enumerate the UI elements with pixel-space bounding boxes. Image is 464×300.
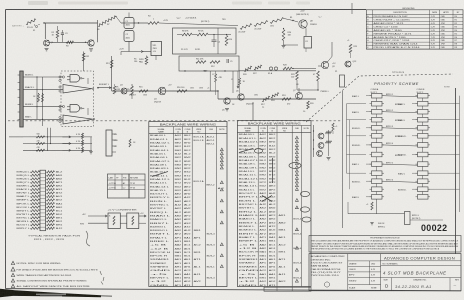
wire chain to Q8 <box>284 19 293 21</box>
input network G2 <box>59 86 61 88</box>
wire left column <box>111 56 113 91</box>
revisions header rule <box>366 13 463 15</box>
regulator VR1 <box>151 42 162 56</box>
voltage table right <box>129 174 145 198</box>
ground at Q2 <box>89 48 93 50</box>
priority bottom wires <box>376 199 378 214</box>
resistor R3 <box>67 41 74 44</box>
resistor R35 <box>215 74 217 82</box>
sheet center dashed line <box>8 120 342 122</box>
wire dropper 2 <box>232 71 234 93</box>
priority box B9 <box>418 162 429 167</box>
transistor Q11 <box>318 143 324 149</box>
priority +5 pullup <box>371 202 373 210</box>
resistor R34 <box>129 139 131 147</box>
pen oval 3 <box>300 191 309 196</box>
ground strip <box>328 130 330 156</box>
title block divider address <box>347 254 349 291</box>
buffer wedge G2 <box>63 85 92 94</box>
wire battery to node A <box>43 22 44 23</box>
priority box B1 <box>418 93 429 98</box>
transistor Q5 <box>224 98 230 104</box>
resistor R27 diagonal <box>254 65 262 70</box>
priority box A7 <box>372 143 383 148</box>
capacitor C3 <box>61 32 64 34</box>
wire caps to regulator feed <box>128 42 130 52</box>
proprietary notice box <box>309 236 461 253</box>
vertical wire gates feed <box>36 77 38 119</box>
priority box A3 <box>372 109 383 114</box>
input network G1 <box>59 76 61 78</box>
wire termination strip <box>313 125 315 157</box>
transistor Q10 <box>318 133 324 139</box>
pen oval 2 <box>254 149 262 154</box>
wire +12V rail <box>159 23 238 26</box>
termination resistor rows <box>9 136 23 138</box>
wire bus to gate 4 <box>23 118 63 120</box>
note 1 marker <box>11 261 14 264</box>
sub-circuit box A <box>173 28 237 54</box>
resistor R23 diagonal chain <box>270 18 284 24</box>
note 2 marker <box>11 267 15 271</box>
scan smudge top left <box>28 1 48 5</box>
left arrow entry row A <box>237 71 239 84</box>
gate box dashed outline <box>61 71 94 127</box>
wire bus to gate 2 <box>23 89 63 91</box>
capacitor C4 <box>212 39 217 41</box>
wire caps to +12V node <box>138 22 139 23</box>
resistor R4 <box>148 22 159 25</box>
nand gate G1 <box>70 75 80 83</box>
pen scribble near converter <box>86 231 90 246</box>
resistor R6 diagonal <box>98 20 107 26</box>
connector J4 <box>106 130 112 156</box>
priority box B4 <box>418 117 429 122</box>
schematic no rule <box>381 260 461 262</box>
resistor R15 <box>139 90 148 93</box>
junction dots box B <box>184 70 185 71</box>
resistor R20 <box>307 101 310 109</box>
priority box A6 <box>372 134 383 139</box>
transistor Q2 <box>85 42 86 43</box>
priority box B5 <box>418 126 429 131</box>
revisions rows <box>366 17 463 19</box>
priority cross wires <box>382 96 418 97</box>
wire to table area <box>252 103 254 121</box>
resistor R16 <box>177 90 187 93</box>
priority box A1 <box>372 93 383 98</box>
link arrow row 2 <box>62 143 70 145</box>
priority bottom box <box>405 212 411 225</box>
priority box B8 <box>418 152 429 157</box>
corner black wedge <box>0 289 101 297</box>
resistor RN1 row <box>23 136 92 138</box>
regulator box VR2 <box>108 213 120 229</box>
capacitor C1 electrolytic <box>124 18 134 29</box>
resistor R22 diagonal chain <box>254 21 268 27</box>
priority box A11 <box>372 179 383 184</box>
arrow into VR2 <box>88 215 107 217</box>
resistor R8 <box>182 33 192 36</box>
dashed wire to priority scheme <box>306 74 453 122</box>
node A vertical drop <box>44 23 46 39</box>
priority box A13 <box>372 195 383 200</box>
priority box B12 <box>418 187 429 192</box>
priority box A10 <box>372 171 383 176</box>
transistor Q3 <box>121 88 127 94</box>
table: backplane wiring 1 outline <box>149 122 227 287</box>
capacitor C5 <box>226 59 228 63</box>
resistor R19 <box>282 98 291 101</box>
resistor R14 <box>131 86 134 95</box>
resistor R5 <box>145 57 148 65</box>
pen oval 4 <box>300 207 309 212</box>
transistor Q8 power <box>299 20 307 28</box>
resistor pack RP1 <box>40 170 46 231</box>
wire lower battery row <box>48 41 89 43</box>
wire row B <box>112 90 218 92</box>
resistor R29 <box>296 71 299 80</box>
priority box A12 <box>372 187 383 192</box>
link arrow row 1 <box>62 136 70 138</box>
transistor Q7 <box>296 93 303 100</box>
input network G3 <box>59 105 61 107</box>
note 5 marker <box>11 284 14 287</box>
priority box B3 <box>418 109 429 114</box>
wire dropper 1 <box>209 71 211 91</box>
resistor R17 diagonal <box>262 96 270 101</box>
wire row B step <box>217 91 219 99</box>
wire row A <box>180 70 316 72</box>
resistor RN2 row <box>23 143 92 145</box>
resistor RV1 vertical stack <box>82 133 84 139</box>
wire bus to gate 3 <box>23 106 63 108</box>
resistor R25 <box>349 44 352 53</box>
priority right return bus <box>459 96 461 212</box>
priority box A4 <box>372 117 383 122</box>
wire Q8 emitter down <box>305 28 307 36</box>
fuse F1 <box>35 25 37 27</box>
resistor R9 <box>197 33 208 36</box>
priority box A2 <box>372 101 383 106</box>
resistor R32 <box>82 53 85 61</box>
table: backplane wiring 1 column rules <box>172 127 174 287</box>
link arrow row 3 <box>62 149 70 151</box>
resistor R26 diagonal <box>244 66 252 71</box>
priority box B2 <box>418 101 429 106</box>
arrows out of VR3 <box>139 215 146 217</box>
resistor R2 <box>56 30 59 38</box>
transistor Q12 <box>317 151 323 157</box>
priority box B10 <box>418 171 429 176</box>
nand gate G3 <box>70 105 80 113</box>
wire charger node to caps <box>116 17 121 24</box>
middle cells rules <box>348 260 381 262</box>
wire PWRFL junction <box>317 71 320 81</box>
title block outline <box>309 254 461 291</box>
resistor R11 <box>196 61 206 64</box>
transistor Q13 <box>345 61 351 67</box>
resistor R21 diagonal chain <box>240 24 252 30</box>
resistor RN3 row <box>23 149 92 151</box>
size row dividers <box>391 278 393 291</box>
pen X mark <box>262 196 272 202</box>
resistor R36 <box>239 78 241 85</box>
note 3 marker <box>11 273 14 276</box>
transistor Q6 <box>238 94 244 100</box>
wire block right rail <box>90 137 92 150</box>
drawing border frame <box>6 9 367 11</box>
wires VR2 to VR3 <box>120 215 127 217</box>
capacitor C2 electrolytic <box>124 31 134 42</box>
priority box A5 <box>372 126 383 131</box>
wires in box A <box>177 34 182 36</box>
pen oval 1 <box>289 163 301 169</box>
priority box B7 <box>418 143 429 148</box>
connector bus bar J2 <box>20 71 23 127</box>
wire from top into gate box <box>83 52 85 72</box>
priority box A8 <box>372 152 383 157</box>
priority left return bus <box>346 104 348 174</box>
voltage table left <box>108 174 130 198</box>
sub-circuit box B <box>179 56 239 71</box>
transistor Q9 <box>321 61 328 68</box>
smudge text under wedge <box>36 294 66 296</box>
resistor R12 <box>210 61 220 64</box>
buffer wedge G4 <box>63 115 93 124</box>
table: backplane wiring 2 outline <box>237 121 311 287</box>
connector stub J3 <box>340 75 345 87</box>
ground at Q5 <box>225 108 229 110</box>
priority box B11 <box>418 179 429 184</box>
resistor R13 <box>110 60 113 68</box>
wire into VR2 lower <box>88 222 108 224</box>
wire block verticals from gates <box>47 128 49 151</box>
resistor R24 <box>282 30 285 41</box>
priority box B6 <box>418 134 429 139</box>
pen oval 5 <box>302 217 311 222</box>
priority box B13 <box>418 195 429 200</box>
size row rule <box>381 277 461 279</box>
regulator box VR3 <box>127 213 139 229</box>
wire +12V to regulator VR1 <box>121 51 143 53</box>
priority box A9 <box>372 162 383 167</box>
resistor R7 diagonal <box>107 16 116 22</box>
table 2 continuation strip <box>264 287 311 291</box>
title block divider middle <box>380 254 382 291</box>
junction row B <box>217 90 218 91</box>
ground at Q1 <box>45 48 49 50</box>
note 4 marker <box>11 279 14 282</box>
wire row A right <box>292 68 316 70</box>
component K1 box <box>304 37 312 49</box>
pen mark vertical in table 2 <box>272 158 274 183</box>
resistor R1 <box>26 19 36 25</box>
pen tick marks <box>100 271 104 285</box>
resistor R31 pair <box>38 94 40 102</box>
scan smudge top middle <box>232 2 262 5</box>
wire bus to gate 1 <box>23 76 63 78</box>
table: backplane wiring 2 column rules <box>257 126 259 287</box>
transistor Q1 <box>44 40 50 46</box>
revisions table outline <box>366 10 463 49</box>
revisions column rules <box>371 10 373 49</box>
ground top right <box>283 41 285 46</box>
input network G4 <box>59 116 61 118</box>
relay contacts K1a <box>269 67 272 70</box>
priority area boundary line <box>342 91 344 228</box>
wire gate2 output BUSGNT <box>97 87 99 89</box>
terminator cluster <box>113 86 116 94</box>
transistor Q4 <box>158 87 166 95</box>
resistor R28 <box>283 67 292 70</box>
resistor R10 <box>225 36 228 46</box>
wire node A to charger <box>97 20 99 42</box>
resistor R18 diagonal <box>271 93 279 98</box>
+5 feed strip <box>332 123 334 131</box>
